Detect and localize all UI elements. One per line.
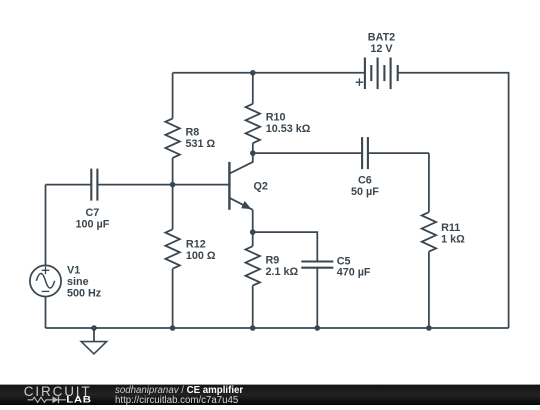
svg-text:50 µF: 50 µF [351, 186, 379, 198]
svg-text:Q2: Q2 [254, 180, 268, 192]
svg-text:12 V: 12 V [370, 43, 393, 55]
svg-text:1 kΩ: 1 kΩ [441, 233, 465, 245]
svg-text:100 µF: 100 µF [75, 218, 109, 230]
svg-text:C5: C5 [337, 255, 351, 267]
svg-text:LAB: LAB [66, 395, 91, 405]
svg-text:500 Hz: 500 Hz [67, 288, 102, 300]
svg-text:2.1 kΩ: 2.1 kΩ [266, 266, 299, 278]
svg-text:100 Ω: 100 Ω [186, 250, 216, 262]
svg-text:R9: R9 [266, 254, 280, 266]
svg-text:C6: C6 [358, 174, 372, 186]
svg-text:R8: R8 [186, 126, 200, 138]
svg-text:http://circuitlab.com/c7a7u45: http://circuitlab.com/c7a7u45 [115, 395, 238, 405]
svg-text:470 µF: 470 µF [337, 267, 371, 279]
svg-text:sine: sine [67, 276, 89, 288]
svg-text:531 Ω: 531 Ω [186, 138, 216, 150]
svg-text:V1: V1 [67, 264, 80, 276]
svg-text:BAT2: BAT2 [368, 32, 395, 44]
svg-text:R10: R10 [266, 111, 286, 123]
svg-text:R12: R12 [186, 239, 206, 251]
svg-text:R11: R11 [441, 222, 460, 234]
svg-text:C7: C7 [85, 207, 99, 219]
svg-text:10.53 kΩ: 10.53 kΩ [266, 123, 311, 135]
